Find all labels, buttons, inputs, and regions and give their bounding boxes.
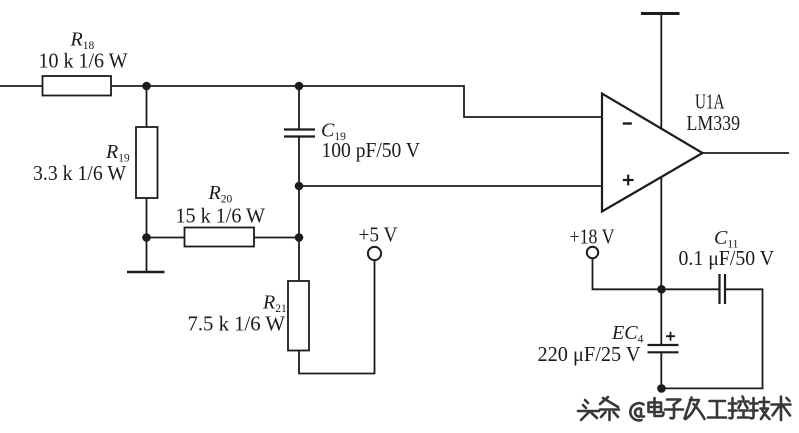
svg-text:LM339: LM339 xyxy=(687,111,741,135)
svg-text:0.1 μF/50 V: 0.1 μF/50 V xyxy=(679,246,775,270)
svg-text:3.3 k 1/6 W: 3.3 k 1/6 W xyxy=(33,161,126,185)
svg-text:+18 V: +18 V xyxy=(570,225,615,249)
svg-text:7.5 k 1/6 W: 7.5 k 1/6 W xyxy=(188,312,286,336)
svg-text:220 μF/25 V: 220 μF/25 V xyxy=(538,342,641,366)
svg-text:10 k 1/6 W: 10 k 1/6 W xyxy=(39,49,128,73)
svg-text:100 pF/50 V: 100 pF/50 V xyxy=(322,138,421,162)
svg-text:+5 V: +5 V xyxy=(359,222,398,246)
svg-text:R20: R20 xyxy=(208,182,233,206)
svg-text:U1A: U1A xyxy=(695,89,725,113)
svg-text:15 k 1/6 W: 15 k 1/6 W xyxy=(176,204,266,228)
